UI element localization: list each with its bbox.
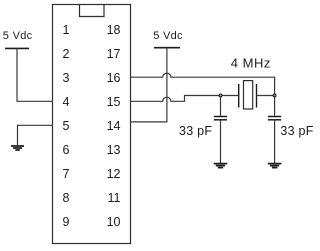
crystal Y1 left lead wire: [221, 95, 239, 97]
wire pin 15 to crystal left node (hops over supply wire): [131, 96, 221, 102]
wire capacitor C2 to ground: [274, 120, 276, 164]
5 Vdc supply bar symbol (left): [5, 47, 29, 49]
svg-text:5 Vdc: 5 Vdc: [153, 30, 183, 42]
svg-text:7: 7: [63, 167, 70, 181]
svg-text:18: 18: [107, 23, 121, 37]
svg-text:1: 1: [63, 23, 70, 37]
IC U1 orientation notch: [80, 5, 105, 17]
svg-text:2: 2: [63, 47, 70, 61]
svg-text:4 MHz: 4 MHz: [231, 56, 271, 71]
svg-text:5: 5: [63, 119, 70, 133]
svg-text:33 pF: 33 pF: [179, 124, 212, 138]
svg-text:8: 8: [63, 191, 70, 205]
ground symbol (below C2): [268, 164, 282, 168]
svg-text:9: 9: [63, 215, 70, 229]
crystal Y1 right plate: [256, 84, 258, 108]
node B junction (crystal right / pin16 / C2): [273, 94, 276, 97]
wire from left 5 Vdc supply to pin 4: [17, 48, 53, 101]
capacitor C1 plates: [214, 117, 227, 120]
svg-text:3: 3: [63, 71, 70, 85]
svg-text:14: 14: [107, 119, 121, 133]
svg-text:13: 13: [107, 143, 121, 157]
svg-text:11: 11: [108, 191, 121, 205]
wire pin 16 to crystal right node (hops over supply wire): [131, 73, 275, 95]
IC U1 DIP-18 outline: [53, 5, 131, 244]
svg-text:33 pF: 33 pF: [280, 124, 313, 138]
wire capacitor C1 to ground: [220, 120, 222, 164]
svg-text:5 Vdc: 5 Vdc: [3, 30, 33, 42]
svg-text:15: 15: [107, 95, 121, 109]
svg-text:6: 6: [63, 143, 70, 157]
wire from right 5 Vdc supply down to pin 14: [131, 48, 167, 122]
crystal Y1 body rectangle: [244, 81, 253, 109]
svg-text:16: 16: [107, 71, 121, 85]
svg-text:4: 4: [63, 95, 70, 109]
crystal Y1 left plate: [238, 84, 240, 108]
wire node A down to capacitor C1: [220, 96, 222, 116]
wire from pin 5 to ground: [18, 125, 53, 145]
svg-text:12: 12: [107, 167, 121, 181]
svg-text:10: 10: [107, 215, 121, 229]
node A junction (crystal left / pin15 / C1): [219, 94, 222, 97]
crystal Y1 right lead wire: [257, 95, 275, 97]
wire node B down to capacitor C2: [274, 96, 276, 116]
ground symbol (below C1): [214, 164, 228, 168]
ground symbol (left, pin 5): [11, 146, 24, 150]
5 Vdc supply bar symbol (right): [154, 47, 180, 49]
capacitor C2 plates: [268, 117, 281, 120]
svg-text:17: 17: [107, 47, 121, 61]
